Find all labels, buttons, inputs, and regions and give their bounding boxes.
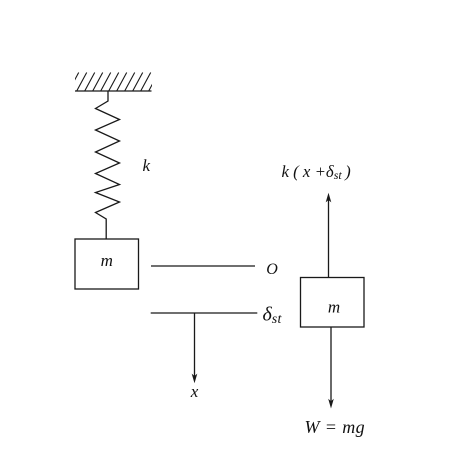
svg-text:O: O <box>266 261 278 278</box>
reference line O <box>151 265 255 267</box>
svg-text:x: x <box>190 382 199 401</box>
svg-text:W = mg: W = mg <box>305 417 366 437</box>
svg-text:k ( x +δst ): k ( x +δst ) <box>282 162 352 182</box>
arrow x (displacement) <box>194 313 196 380</box>
svg-text:m: m <box>328 298 340 317</box>
svg-text:k: k <box>143 156 151 175</box>
svg-text:m: m <box>101 251 113 270</box>
spring force arrow (up) <box>328 198 330 278</box>
arrowhead up <box>326 193 332 203</box>
mass box left <box>75 239 139 289</box>
reference line delta_st <box>151 312 258 314</box>
spring k <box>96 91 120 239</box>
svg-text:δst: δst <box>263 304 283 328</box>
ceiling hatching <box>61 73 159 92</box>
arrowhead x <box>192 374 198 384</box>
mass box right (free body) <box>301 278 365 328</box>
weight arrow (down) <box>330 327 332 405</box>
ceiling line <box>75 90 152 92</box>
arrowhead down <box>328 399 334 409</box>
